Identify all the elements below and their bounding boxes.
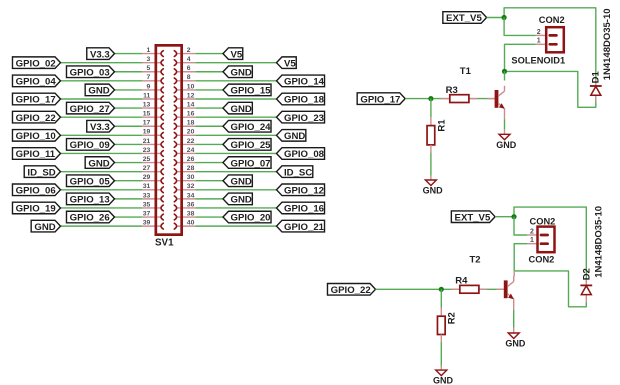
svg-text:CON2: CON2 (530, 216, 556, 226)
wire net GPIO_19 to SV1 pin 35 (61, 207, 143, 209)
wire net GND to SV1 pin 39 (61, 225, 143, 227)
svg-text:V3.3: V3.3 (90, 122, 110, 133)
connector CON2 (top) pin leads (536, 34, 546, 36)
svg-text:3: 3 (147, 56, 151, 63)
svg-text:4: 4 (187, 56, 191, 63)
svg-text:21: 21 (143, 138, 151, 145)
svg-text:GPIO_09: GPIO_09 (70, 140, 110, 151)
net label GPIO_09 (pin 21) (66, 139, 114, 151)
svg-text:30: 30 (187, 174, 195, 181)
net label V5 (pin 2) (223, 48, 243, 60)
net label GND (pin 14) (223, 102, 252, 114)
SV1 pins (leads and contacts) (142, 51, 195, 229)
svg-text:T2: T2 (470, 255, 481, 266)
svg-text:24: 24 (187, 147, 195, 154)
svg-text:1: 1 (147, 47, 151, 54)
wire net GPIO_06 to SV1 pin 31 (61, 189, 143, 191)
net label GPIO_17 (357, 93, 405, 105)
transistor T1 (495, 90, 499, 108)
wire net GND to SV1 pin 9 (115, 89, 143, 91)
svg-text:GPIO_27: GPIO_27 (70, 104, 110, 115)
svg-text:ID_SC: ID_SC (284, 167, 312, 178)
svg-text:GPIO_22: GPIO_22 (16, 113, 56, 124)
svg-text:7: 7 (147, 74, 151, 81)
net label GPIO_23 (pin 16) (277, 111, 325, 123)
svg-text:SV1: SV1 (155, 237, 174, 248)
diode D2 (580, 284, 592, 286)
SV1 pin numbers 2-40 (even) (187, 47, 195, 227)
svg-text:26: 26 (187, 156, 195, 163)
svg-text:22: 22 (187, 138, 195, 145)
svg-text:17: 17 (143, 120, 151, 127)
net label ID_SC (pin 28) (277, 166, 313, 178)
wire node C2 to T2 base via R4 (441, 288, 504, 290)
resistor R3 body (450, 95, 469, 103)
svg-text:GPIO_16: GPIO_16 (284, 204, 324, 215)
SV1 pin numbers 1-39 (odd) (143, 47, 151, 227)
net label GPIO_06 (pin 31) (12, 184, 60, 196)
wire node A2 up and across top to D2 cathode (514, 207, 586, 278)
net label GPIO_20 (pin 38) (223, 211, 271, 223)
wire net V3.3 to SV1 pin 17 (115, 125, 143, 127)
svg-text:20: 20 (187, 129, 195, 136)
svg-text:GPIO_20: GPIO_20 (231, 213, 271, 224)
svg-text:9: 9 (147, 83, 151, 90)
svg-text:GND: GND (34, 222, 55, 233)
wire EXT_V5 to node A (487, 17, 505, 19)
svg-text:R3: R3 (446, 85, 458, 96)
net label GPIO_10 (pin 19) (12, 130, 60, 142)
wire net GPIO_20 to SV1 pin 38 (195, 216, 223, 218)
svg-text:GPIO_10: GPIO_10 (16, 131, 56, 142)
svg-text:32: 32 (187, 183, 195, 190)
svg-text:11: 11 (143, 92, 150, 99)
wire net GPIO_15 to SV1 pin 10 (195, 89, 223, 91)
net label GPIO_02 (pin 3) (12, 57, 60, 69)
junction node B (502, 69, 507, 74)
svg-text:R2: R2 (447, 312, 458, 324)
net label GPIO_24 (pin 18) (223, 120, 271, 132)
diode D1 (590, 85, 602, 87)
resistor R1 body (427, 126, 435, 145)
svg-text:15: 15 (143, 111, 151, 118)
svg-text:GPIO_15: GPIO_15 (231, 86, 272, 97)
svg-text:GPIO_18: GPIO_18 (284, 95, 325, 106)
svg-text:GND: GND (284, 131, 305, 142)
svg-text:40: 40 (187, 220, 195, 227)
svg-text:EXT_V5: EXT_V5 (455, 212, 491, 223)
svg-text:GPIO_06: GPIO_06 (16, 186, 56, 197)
R1 top pin lead (430, 117, 432, 126)
svg-text:37: 37 (143, 210, 151, 217)
pin header SV1 body (156, 45, 182, 234)
svg-text:2: 2 (530, 228, 534, 235)
wire net V5 to SV1 pin 4 (195, 62, 276, 64)
net label GPIO_25 (pin 22) (223, 139, 271, 151)
net label GPIO_14 (pin 8) (277, 75, 325, 87)
net label GPIO_13 (pin 33) (66, 193, 114, 205)
net label ID_SD (pin 27) (24, 166, 60, 178)
diode D1 leads (595, 80, 597, 87)
net label GPIO_11 (pin 23) (12, 148, 60, 160)
svg-text:GPIO_17: GPIO_17 (16, 95, 56, 106)
wire node A down to CON2 pin 2 (504, 18, 536, 36)
junction node C (428, 96, 433, 101)
net label GND (pin 25) (85, 157, 114, 169)
svg-text:GND: GND (423, 186, 444, 196)
GND pin lead (T1 emitter) (504, 130, 506, 135)
svg-text:EXT_V5: EXT_V5 (446, 13, 482, 24)
wire GPIO_22 to node C2 (376, 288, 442, 290)
svg-text:V5: V5 (284, 58, 296, 69)
wire GPIO_17 to node C (405, 98, 431, 100)
svg-text:GPIO_24: GPIO_24 (231, 122, 272, 133)
wire node A2 down to CON2 pin 2 (bottom) (514, 217, 527, 235)
net label GND (pin 34) (223, 193, 252, 205)
svg-text:GND: GND (88, 158, 109, 169)
wire net GND to SV1 pin 30 (195, 180, 223, 182)
CON2 (top) contacts (550, 34, 557, 37)
net label GPIO_21 (pin 40) (277, 220, 325, 232)
svg-text:35: 35 (143, 201, 151, 208)
svg-text:GPIO_17: GPIO_17 (360, 94, 400, 105)
wire net GPIO_16 to SV1 pin 36 (195, 207, 276, 209)
connector CON2 (bottom) body (538, 227, 555, 253)
ground symbol GND (below R1) (425, 180, 436, 186)
net label GPIO_08 (pin 24) (277, 148, 325, 160)
svg-text:36: 36 (187, 201, 195, 208)
svg-text:GPIO_08: GPIO_08 (284, 149, 325, 160)
net label GPIO_03 (pin 5) (66, 66, 114, 78)
wire node B to D1 anode (505, 71, 596, 107)
svg-text:GPIO_04: GPIO_04 (16, 77, 57, 88)
wire net GPIO_09 to SV1 pin 21 (115, 143, 143, 145)
wire net GPIO_02 to SV1 pin 3 (61, 62, 143, 64)
net label V3.3 (pin 1) (87, 48, 115, 60)
net label GND (pin 20) (277, 130, 306, 142)
wire net GPIO_08 to SV1 pin 24 (195, 152, 276, 154)
net label V5 (pin 4) (277, 57, 297, 69)
svg-text:GPIO_13: GPIO_13 (70, 195, 110, 206)
net label GPIO_17 (pin 11) (12, 93, 60, 105)
wire net GND to SV1 pin 14 (195, 107, 223, 109)
wire net GPIO_05 to SV1 pin 29 (115, 180, 143, 182)
wire net GPIO_14 to SV1 pin 8 (195, 80, 276, 82)
R1 bottom pin lead (430, 145, 432, 153)
svg-text:GND: GND (433, 376, 454, 385)
svg-text:38: 38 (187, 210, 195, 217)
wire node B to T1 collector (504, 71, 506, 80)
svg-text:GND: GND (505, 339, 526, 349)
GND pin lead (below R1) (430, 176, 432, 181)
transistor T2 (504, 280, 508, 298)
svg-text:1N4148DO35-10: 1N4148DO35-10 (593, 206, 604, 278)
svg-text:29: 29 (143, 174, 151, 181)
wire T2 collector to node B2 (513, 271, 515, 277)
wire node A up and across top to D1 cathode (504, 8, 596, 80)
connector CON2 (top) body (546, 27, 564, 52)
wire net GPIO_12 to SV1 pin 32 (195, 189, 276, 191)
wire net GPIO_18 to SV1 pin 12 (195, 98, 276, 100)
net label GPIO_18 (pin 12) (277, 93, 325, 105)
ground symbol GND (below R2) (436, 370, 447, 376)
wire net GPIO_07 to SV1 pin 26 (195, 162, 223, 164)
CON2 (bottom) contacts (541, 234, 548, 237)
R2 top pin lead (440, 308, 442, 317)
svg-text:25: 25 (143, 156, 151, 163)
net label GND (pin 6) (223, 66, 252, 78)
svg-text:28: 28 (187, 165, 195, 172)
svg-text:GPIO_22: GPIO_22 (331, 285, 371, 296)
svg-text:V3.3: V3.3 (90, 49, 110, 60)
junction node A2 (511, 214, 516, 219)
svg-text:39: 39 (143, 220, 151, 227)
T1 base pin lead (487, 98, 495, 100)
net label GPIO_27 (pin 13) (66, 102, 114, 114)
svg-text:D1: D1 (591, 71, 602, 84)
svg-text:GPIO_21: GPIO_21 (284, 222, 325, 233)
junction node A (502, 15, 507, 20)
svg-text:SOLENOID1: SOLENOID1 (511, 56, 565, 66)
svg-text:V5: V5 (231, 49, 243, 60)
net label GPIO_05 (pin 29) (66, 175, 114, 187)
wire R1 to GND (430, 153, 432, 176)
svg-text:T1: T1 (460, 66, 472, 77)
wire net GPIO_22 to SV1 pin 15 (61, 116, 143, 118)
connector CON2 (bottom) pin leads (527, 234, 538, 236)
wire net GND to SV1 pin 34 (195, 198, 223, 200)
wire CON2 pin 1 (bottom) to node B2 (514, 244, 527, 271)
wire CON2 pin 1 to node B (505, 44, 536, 71)
wire net GPIO_17 to SV1 pin 11 (61, 98, 143, 100)
svg-text:GND: GND (88, 86, 109, 97)
wire net GND to SV1 pin 25 (115, 162, 143, 164)
net label GPIO_15 (pin 10) (223, 84, 271, 96)
svg-text:GPIO_03: GPIO_03 (70, 67, 110, 78)
R2 bottom pin lead (440, 335, 442, 343)
wire net ID_SD to SV1 pin 27 (61, 171, 143, 173)
svg-text:34: 34 (187, 192, 195, 199)
net label GPIO_26 (pin 37) (66, 211, 114, 223)
svg-text:12: 12 (187, 92, 195, 99)
R4 pin leads (451, 288, 460, 290)
net label V3.3 (pin 17) (87, 120, 115, 132)
resistor R4 body (460, 285, 479, 293)
net label GPIO_04 (pin 7) (12, 75, 60, 87)
svg-text:10: 10 (187, 83, 195, 90)
svg-text:GPIO_02: GPIO_02 (16, 58, 56, 69)
svg-text:GPIO_26: GPIO_26 (70, 213, 110, 224)
net label GPIO_16 (pin 36) (277, 202, 325, 214)
net label GPIO_22 (327, 284, 375, 296)
wire R2 to GND (440, 342, 442, 366)
svg-text:GPIO_19: GPIO_19 (16, 204, 56, 215)
svg-text:5: 5 (147, 65, 151, 72)
net label GND (pin 39) (31, 220, 60, 232)
wire net GPIO_10 to SV1 pin 19 (61, 134, 143, 136)
wire node C down to R1 (430, 99, 432, 117)
wire net GPIO_13 to SV1 pin 33 (115, 198, 143, 200)
svg-text:6: 6 (187, 65, 191, 72)
wire net GPIO_24 to SV1 pin 18 (195, 125, 223, 127)
GND pin lead (below R2) (440, 366, 442, 371)
svg-text:GND: GND (231, 104, 252, 115)
wire net GND to SV1 pin 6 (195, 71, 223, 73)
wire net GPIO_27 to SV1 pin 13 (115, 107, 143, 109)
ground symbol GND (T2 emitter) (508, 333, 519, 339)
svg-text:1: 1 (530, 237, 534, 244)
svg-text:R4: R4 (455, 275, 468, 286)
GND pin lead (T2 emitter) (513, 328, 515, 333)
ground symbol GND (T1 emitter) (499, 134, 510, 140)
resistor R2 body (437, 316, 445, 334)
SV1 body border (redraw over leads) (156, 45, 182, 234)
svg-text:16: 16 (187, 111, 195, 118)
svg-text:1N4148DO35-10: 1N4148DO35-10 (602, 8, 613, 80)
net label GPIO_19 (pin 35) (12, 202, 60, 214)
wire net GPIO_21 to SV1 pin 40 (195, 225, 276, 227)
svg-text:GND: GND (231, 195, 252, 206)
T2 base pin lead (496, 288, 504, 290)
svg-text:GND: GND (231, 67, 252, 78)
svg-text:CON2: CON2 (539, 15, 565, 25)
wire T1 emitter to GND (504, 120, 506, 130)
net label GPIO_07 (pin 26) (223, 157, 271, 169)
wire EXT_V5 to node A2 (495, 216, 514, 218)
net label GPIO_12 (pin 32) (277, 184, 325, 196)
svg-text:14: 14 (187, 101, 195, 108)
svg-text:GPIO_14: GPIO_14 (284, 77, 325, 88)
svg-text:GPIO_05: GPIO_05 (70, 176, 111, 187)
svg-text:2: 2 (187, 47, 191, 54)
wire net GPIO_23 to SV1 pin 16 (195, 116, 276, 118)
svg-text:GPIO_25: GPIO_25 (231, 140, 272, 151)
wire net ID_SC to SV1 pin 28 (195, 171, 276, 173)
svg-text:D2: D2 (581, 268, 592, 280)
svg-text:31: 31 (143, 183, 151, 190)
net label EXT_V5 (top) (443, 12, 487, 24)
svg-text:GND: GND (496, 140, 517, 150)
R3 pin leads (441, 98, 450, 100)
diode D2 leads (585, 279, 587, 286)
wire net GPIO_04 to SV1 pin 7 (61, 80, 143, 82)
svg-text:GPIO_12: GPIO_12 (284, 186, 324, 197)
net label GND (pin 9) (85, 84, 114, 96)
svg-text:18: 18 (187, 120, 195, 127)
svg-text:23: 23 (143, 147, 151, 154)
svg-text:8: 8 (187, 74, 191, 81)
net label GND (pin 30) (223, 175, 252, 187)
junction node C2 (439, 287, 444, 292)
wire net GPIO_26 to SV1 pin 37 (115, 216, 143, 218)
wire node C to T1 base via R3 (431, 98, 495, 100)
svg-text:CON2: CON2 (529, 254, 555, 264)
wire net GPIO_25 to SV1 pin 22 (195, 143, 223, 145)
svg-text:13: 13 (143, 101, 151, 108)
wire net V3.3 to SV1 pin 1 (115, 53, 143, 55)
svg-text:GPIO_11: GPIO_11 (16, 149, 56, 160)
wire net GND to SV1 pin 20 (195, 134, 276, 136)
net label GPIO_22 (pin 15) (12, 111, 60, 123)
wire node C2 down to R2 (440, 289, 442, 307)
svg-text:GND: GND (231, 176, 252, 187)
svg-text:R1: R1 (436, 119, 447, 132)
wire net V5 to SV1 pin 2 (195, 53, 223, 55)
svg-text:GPIO_23: GPIO_23 (284, 113, 324, 124)
svg-text:ID_SD: ID_SD (27, 167, 55, 178)
wire node B2 to D2 anode (514, 271, 586, 307)
svg-text:19: 19 (143, 129, 151, 136)
svg-text:33: 33 (143, 192, 151, 199)
wire net GPIO_11 to SV1 pin 23 (61, 152, 143, 154)
svg-text:27: 27 (143, 165, 151, 172)
wire T2 emitter to GND (513, 310, 515, 328)
svg-text:2: 2 (537, 29, 541, 36)
wire net GPIO_03 to SV1 pin 5 (115, 71, 143, 73)
svg-text:1: 1 (537, 38, 541, 45)
svg-text:GPIO_07: GPIO_07 (231, 158, 271, 169)
net label EXT_V5 (bottom) (451, 211, 495, 223)
